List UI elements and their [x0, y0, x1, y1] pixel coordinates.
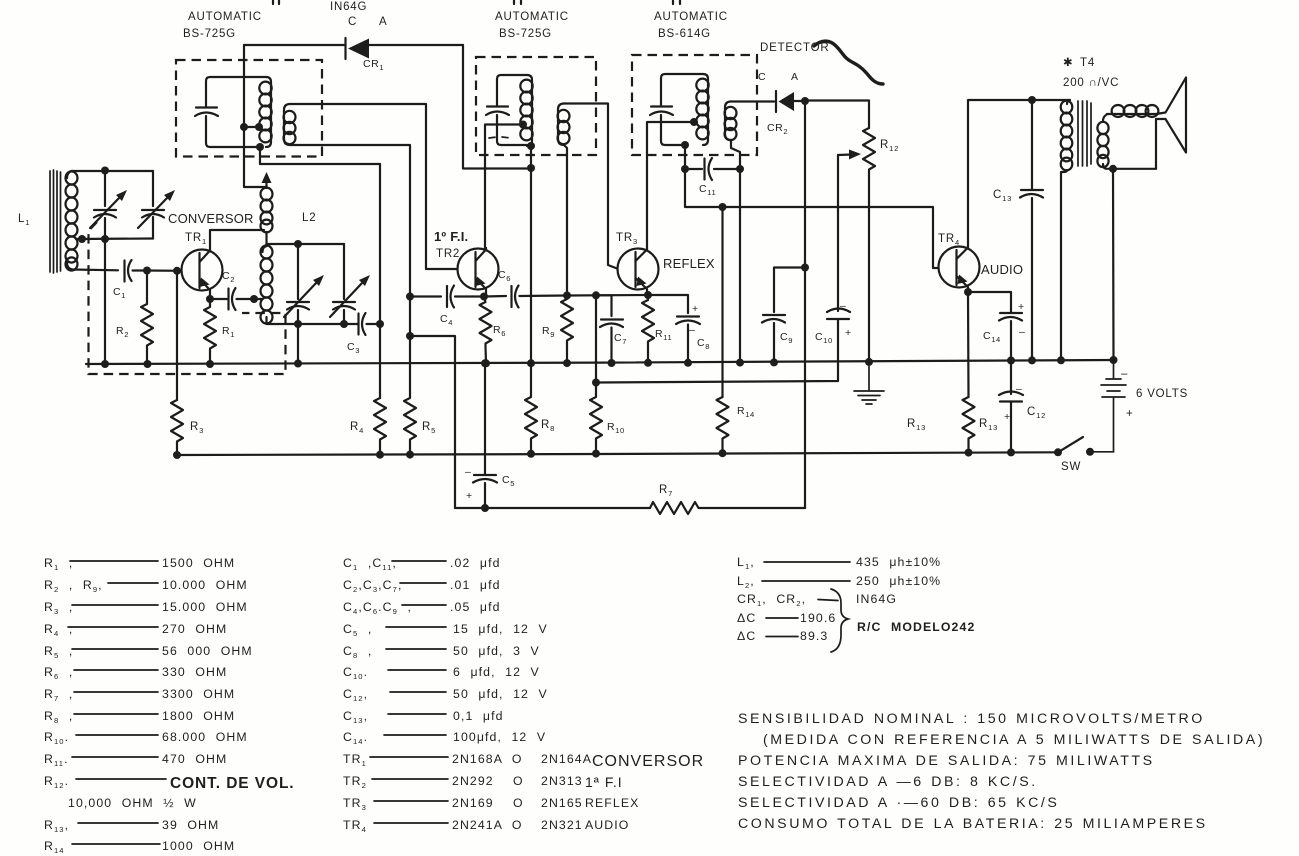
wire C1 to TR1 base [147, 269, 181, 271]
svg-text:15 μfd, 12 V: 15 μfd, 12 V [453, 622, 548, 636]
node bus L2 [294, 360, 302, 368]
transistor TR4 [939, 247, 980, 293]
antenna coil L1 [66, 171, 78, 271]
svg-text:(MEDIDA CON REFERENCIA A 5 MIL: (MEDIDA CON REFERENCIA A 5 MILIWATTS DE … [763, 732, 1265, 748]
node C5 bottom [481, 504, 489, 512]
T1 tank left wire [206, 77, 266, 147]
T1 primary tap wire [244, 126, 259, 128]
wire T3 primary bottom to AVC line [685, 145, 938, 268]
svg-text:SELECTIVIDAD A ·—60 DB: 65 KC/: SELECTIVIDAD A ·—60 DB: 65 KC/S [738, 795, 1059, 811]
T1 dashed can outline [176, 60, 322, 157]
node T1 tap [240, 123, 248, 131]
wire TR2 collector (to T2 tap drawn above) [484, 247, 487, 249]
variable capacitor (osc section in box) [138, 190, 175, 228]
svg-text:AUDIO: AUDIO [585, 818, 629, 832]
capacitor C9 [762, 315, 785, 363]
capacitor C4 [447, 286, 484, 308]
svg-text:BS-614G: BS-614G [658, 28, 711, 40]
svg-text:50 μfd, 12 V: 50 μfd, 12 V [453, 687, 548, 701]
wire TR1 collector up and to L2 [210, 230, 264, 249]
wire L1 bottom row [72, 268, 118, 271]
node TR1 emitter junction [206, 295, 214, 303]
svg-text:REFLEX: REFLEX [585, 796, 639, 810]
svg-text:R12: R12 [880, 139, 899, 153]
svg-text:C11: C11 [699, 183, 716, 197]
svg-text:TR4: TR4 [938, 233, 960, 247]
wire T1 center vertical (osc feedback) [244, 45, 266, 187]
svg-text:R8: R8 [541, 419, 555, 433]
svg-text:.01 μfd: .01 μfd [450, 578, 501, 592]
svg-text:1500 OHM: 1500 OHM [162, 556, 235, 570]
capacitor C2 [210, 288, 262, 310]
wire TR4 emitter down to R13 [967, 292, 970, 397]
node bus C14 [1007, 357, 1015, 365]
svg-text:.05 μfd: .05 μfd [450, 600, 501, 614]
svg-text:435 μh±10%: 435 μh±10% [856, 555, 941, 569]
svg-text:C2,C3,C7,: C2,C3,C7, [343, 578, 403, 594]
svg-text:R5: R5 [422, 421, 436, 435]
svg-text:R10.: R10. [44, 730, 69, 746]
resistor R4 riser [379, 164, 381, 398]
svg-text:R/C MODELO242: R/C MODELO242 [857, 620, 975, 634]
svg-text:C10.: C10. [343, 665, 368, 681]
svg-text:+: + [692, 303, 699, 315]
svg-text:R12.: R12. [44, 774, 69, 790]
variable capacitor (osc trimmer) [330, 244, 370, 324]
T2 primary coil [520, 75, 532, 146]
wire top feed from T1 to CR1 [244, 44, 344, 46]
svg-text:R1 ,: R1 , [44, 556, 73, 572]
svg-text:R7: R7 [659, 484, 673, 498]
svg-text:C9: C9 [780, 331, 793, 345]
detector squiggle arrow [814, 41, 883, 84]
capacitor C5 (electrolytic) [473, 364, 497, 509]
node rail R5 [406, 451, 414, 459]
svg-text:R4 ;: R4 ; [44, 622, 73, 638]
node TR4 emitter [964, 288, 972, 296]
node bus R2 [144, 360, 152, 368]
node bus T3 return [736, 359, 744, 367]
svg-text:+: + [1126, 408, 1134, 420]
wire tuning box bottom (coil tap) [76, 237, 153, 240]
antenna core bars [50, 170, 61, 273]
svg-text:C14: C14 [983, 330, 1001, 344]
svg-text:C13: C13 [993, 189, 1012, 203]
svg-text:R13: R13 [979, 418, 998, 432]
node R9 top [563, 292, 571, 300]
svg-text:REFLEX: REFLEX [663, 256, 715, 271]
svg-text:2N292: 2N292 [452, 774, 494, 788]
svg-text:C1 ,C11,: C1 ,C11, [343, 556, 397, 572]
wire L2 tank to bus [297, 324, 299, 364]
wire C7 riser to R10 [595, 295, 597, 382]
node bus R6 [482, 359, 490, 367]
svg-text:10.000 OHM: 10.000 OHM [162, 578, 248, 592]
svg-text:C7: C7 [614, 332, 627, 346]
node rail R13 [965, 449, 973, 457]
brace [831, 589, 848, 652]
svg-text:TR1: TR1 [185, 232, 207, 246]
node TR2 emitter [480, 293, 488, 301]
svg-text:–: – [1019, 326, 1025, 338]
wire C4 row [410, 295, 441, 297]
svg-text:+: + [466, 490, 473, 502]
svg-text:39 OHM: 39 OHM [162, 818, 219, 832]
node C3 right on R4 riser [376, 320, 384, 328]
svg-text:R6 ,: R6 , [44, 665, 73, 681]
node C4 left on R5 riser [406, 293, 414, 301]
resistor R3 riser [176, 271, 178, 400]
svg-text:R8 ,: R8 , [44, 709, 73, 725]
svg-text:R3: R3 [190, 421, 204, 435]
svg-text:C5 ,: C5 , [343, 622, 372, 638]
resistor R14 [717, 397, 729, 454]
svg-text:POTENCIA MAXIMA DE SALIDA: 75: POTENCIA MAXIMA DE SALIDA: 75 MILIWATTS [738, 753, 1155, 769]
svg-text:2N241A O: 2N241A O [452, 818, 523, 832]
resistor R9 [561, 296, 573, 364]
wire tuning box top [72, 170, 153, 172]
svg-text:C4: C4 [440, 313, 453, 327]
resistor R5 [404, 297, 416, 455]
svg-text:CR1, CR2,: CR1, CR2, [737, 592, 806, 608]
svg-text:C13,: C13, [343, 709, 368, 725]
capacitor C13 [1020, 100, 1043, 360]
svg-text:C8 ,: C8 , [343, 644, 372, 660]
node R14 riser top [719, 203, 727, 211]
oscillator coil L2 lower [261, 245, 273, 323]
svg-text:R2 , R9,: R2 , R9, [44, 578, 103, 594]
node TR3 emitter [644, 291, 652, 299]
node bus R11 [644, 359, 652, 367]
transformer T2 cut label [514, 0, 521, 4]
node bus R8 top [527, 359, 535, 367]
svg-text:270 OHM: 270 OHM [162, 622, 227, 636]
wire CR2 to R12 [805, 101, 869, 129]
coil list leader lines [762, 562, 850, 637]
wire R7 row [485, 507, 650, 509]
svg-text:C10: C10 [815, 331, 833, 345]
node C7 branch [592, 291, 600, 299]
T2 primary tap wire to TR2 collector [485, 125, 523, 250]
svg-text:A: A [791, 71, 799, 83]
svg-text:200 ∩/VC: 200 ∩/VC [1063, 77, 1119, 89]
wire L2 tank bottom [267, 317, 359, 324]
resistor R12 (volume control) [863, 128, 875, 361]
svg-text:R13: R13 [907, 418, 926, 432]
svg-text:R9: R9 [542, 325, 555, 339]
transistor TR1 [182, 249, 223, 299]
ground symbol [854, 362, 884, 404]
svg-text:C12,: C12, [343, 687, 368, 703]
svg-text:R2: R2 [116, 325, 129, 339]
capacitor inside T3 [650, 107, 673, 116]
svg-text:C3: C3 [347, 341, 360, 355]
wire T2 secondary bottom down [564, 145, 567, 296]
svg-text:50 μfd, 3 V: 50 μfd, 3 V [453, 644, 540, 658]
node L2 tank top [294, 240, 302, 248]
capacitor C8 (electrolytic) [648, 295, 700, 363]
node bus C8 [684, 359, 692, 367]
svg-text:IN64G: IN64G [330, 1, 367, 13]
svg-text:CONVERSOR: CONVERSOR [168, 211, 254, 226]
svg-text:+: + [1018, 301, 1025, 313]
resistor R10 [590, 383, 602, 455]
svg-text:CR1: CR1 [363, 58, 384, 72]
wire emitter row to TR3 [567, 294, 648, 297]
resistor R11 [642, 295, 654, 363]
wire varcap1 down to bus [104, 239, 106, 364]
node rail R4 [376, 451, 384, 459]
svg-text:L1,: L1, [737, 555, 755, 571]
svg-text:+: + [845, 327, 852, 339]
svg-text:TR3: TR3 [616, 232, 638, 246]
node TR1 base / R3 [173, 267, 181, 275]
wire T2 primary bottom down to bus [530, 147, 532, 363]
svg-text:AUTOMATIC: AUTOMATIC [495, 11, 569, 23]
wire tuning box right [152, 171, 154, 206]
svg-text:10,000 OHM ½ W: 10,000 OHM ½ W [68, 796, 197, 810]
svg-text:190.6: 190.6 [800, 611, 836, 625]
svg-text:–: – [1016, 383, 1022, 395]
svg-text:AUTOMATIC: AUTOMATIC [188, 11, 262, 23]
svg-text:TR3: TR3 [343, 796, 367, 812]
svg-text:BS-725G: BS-725G [499, 28, 552, 40]
svg-text:CONVERSOR: CONVERSOR [592, 753, 704, 770]
svg-text:AUTOMATIC: AUTOMATIC [654, 11, 728, 23]
converter dashed outline [89, 222, 286, 374]
svg-text:1000 OHM: 1000 OHM [162, 839, 235, 853]
node L2 tank bottom left [294, 320, 302, 328]
capacitor C3 [359, 313, 381, 335]
resistor R8 [525, 363, 537, 454]
node T3 primary bottom [681, 141, 689, 149]
svg-text:AUDIO: AUDIO [981, 262, 1023, 277]
svg-text:470 OHM: 470 OHM [162, 752, 227, 766]
node bus battery [1110, 356, 1118, 364]
svg-text:CR2: CR2 [767, 122, 788, 136]
svg-text:C12: C12 [1027, 406, 1046, 420]
node tap L1 [78, 235, 86, 243]
svg-text:250 μh±10%: 250 μh±10% [856, 574, 941, 588]
capacitor C7 [596, 295, 623, 363]
wire T3 secondary bottom down to bus [731, 140, 740, 363]
node AVC tap [406, 332, 414, 340]
node C13 top [1028, 96, 1036, 104]
svg-text:TR2: TR2 [436, 248, 460, 260]
svg-text:T4: T4 [1080, 57, 1095, 69]
speaker horn [1156, 78, 1186, 169]
svg-text:2N165: 2N165 [541, 796, 583, 810]
node speaker return [1109, 165, 1117, 173]
svg-text:C: C [758, 71, 766, 83]
transformer T4 core [1078, 101, 1091, 166]
svg-text:O: O [513, 796, 524, 810]
svg-text:R14: R14 [737, 405, 755, 419]
svg-text:0,1 μfd: 0,1 μfd [453, 709, 504, 723]
wire R12 wiper to C10 [837, 155, 839, 311]
svg-text:CONSUMO TOTAL DE LA BATERIA: 2: CONSUMO TOTAL DE LA BATERIA: 25 MILIAMPE… [738, 816, 1208, 832]
svg-text:SENSIBILIDAD NOMINAL : 150 MIC: SENSIBILIDAD NOMINAL : 150 MICROVOLTS/ME… [738, 711, 1205, 727]
svg-text:SW: SW [1061, 461, 1081, 473]
node bus C5 [481, 359, 489, 367]
wire main supply bus [86, 360, 1114, 364]
wire CR1 to T2 bottom junction [463, 45, 531, 169]
wire TR4 emitter to C14 [968, 292, 1011, 312]
node rail R3 [173, 451, 181, 459]
wire T1 primary bottom to R4 riser [260, 147, 380, 164]
wire AVC feedback to R7 [410, 336, 485, 508]
svg-text:2N321: 2N321 [541, 818, 583, 832]
node rail R14 [719, 449, 727, 457]
node R2 top [143, 267, 151, 275]
svg-text:IN64G: IN64G [856, 592, 897, 606]
T2 dashed can outline [476, 57, 596, 155]
svg-text:ΔC: ΔC [737, 611, 756, 625]
wire detector output down [804, 101, 806, 508]
svg-text:C5: C5 [502, 474, 515, 488]
node C2 right (L2 tap) [250, 295, 258, 303]
svg-text:TR2: TR2 [343, 774, 367, 790]
svg-text:C2: C2 [222, 270, 235, 284]
R12 wiper arrow [838, 153, 852, 156]
svg-text:L2: L2 [302, 212, 316, 224]
resistor R1 [204, 299, 216, 364]
wire C9 branch [774, 268, 805, 313]
svg-text:6 μfd, 12 V: 6 μfd, 12 V [453, 665, 540, 679]
svg-text:1º F.I.: 1º F.I. [434, 229, 468, 244]
wire R14 riser [721, 207, 723, 397]
svg-text:R11.: R11. [44, 752, 69, 768]
transformer T1 cut label [273, 0, 279, 4]
diode CR1 [346, 38, 464, 59]
svg-text:C1: C1 [113, 286, 126, 300]
resistor R13 [963, 397, 975, 454]
T3 dashed can outline [632, 55, 757, 155]
svg-text:R13,: R13, [44, 818, 69, 834]
T3 primary coil [696, 74, 708, 145]
speaker voice coil [1107, 105, 1158, 117]
wire T2 secondary top to TR3 base [564, 104, 617, 269]
svg-text:R4: R4 [350, 421, 364, 435]
node T2 primary bottom [527, 142, 535, 150]
svg-text:C6: C6 [498, 269, 511, 283]
wire T1 secondary top to TR2 base [290, 104, 457, 269]
resistor R6 [480, 297, 492, 364]
svg-text:–: – [840, 300, 846, 312]
svg-text:TR4: TR4 [343, 818, 367, 834]
svg-text:1ª F.I: 1ª F.I [585, 774, 623, 790]
capacitor inside T2 [486, 107, 509, 116]
node varcap1 top [101, 167, 109, 175]
node varcap1 bottom [101, 235, 109, 243]
svg-text:89.3: 89.3 [800, 629, 828, 643]
T1 primary coil [259, 77, 271, 147]
variable capacitor (antenna section) [90, 171, 127, 239]
resistor list leader lines [68, 561, 166, 844]
capacitor C10 (electrolytic) [596, 309, 850, 383]
capacitor list leader lines [370, 561, 448, 823]
svg-text:2N168A O: 2N168A O [452, 752, 523, 766]
resistor R4 [374, 398, 386, 455]
oscillator coil L2 upper with arrow [261, 172, 273, 246]
capacitor C6 [484, 286, 567, 308]
node bus C13 [1028, 356, 1036, 364]
svg-text:R14: R14 [44, 839, 65, 855]
svg-text:R11: R11 [655, 328, 672, 342]
transistor TR2 [458, 248, 499, 297]
svg-text:330 OHM: 330 OHM [162, 665, 227, 679]
svg-text:A: A [379, 16, 387, 28]
wire TR4 collector up [968, 100, 1070, 247]
T1 secondary coil [284, 104, 296, 145]
node CR2 output [801, 97, 809, 105]
wire ground bus (negative rail) [177, 452, 1058, 455]
svg-text:ΔC: ΔC [737, 629, 756, 643]
svg-text:2N164A: 2N164A [541, 752, 592, 766]
svg-text:R3 ,: R3 , [44, 600, 73, 616]
T2 tank left wire [497, 75, 527, 145]
svg-text:+: + [1004, 411, 1011, 423]
node T2 bottom junction [527, 164, 535, 172]
svg-text:–: – [689, 324, 695, 336]
svg-text:✱: ✱ [1063, 57, 1073, 69]
switch SW [1054, 448, 1062, 456]
node C9 branch [801, 264, 809, 272]
variable capacitor (osc tuning) [284, 244, 324, 324]
node R10 top [592, 379, 600, 387]
svg-text:C4,C6.C9 ,: C4,C6.C9 , [343, 600, 412, 616]
node T3 tap [690, 118, 698, 126]
svg-text:R5 ,: R5 , [44, 644, 73, 660]
capacitor C14 (electrolytic) [999, 313, 1022, 361]
wire T3 secondary top to CR2 [731, 100, 774, 102]
svg-text:L2,: L2, [737, 574, 755, 590]
node bus varcap1 [101, 360, 109, 368]
wire L2 tank top [267, 244, 345, 246]
svg-text:100μfd, 12 V: 100μfd, 12 V [453, 730, 546, 744]
transistor TR3 [618, 248, 659, 295]
svg-text:TR1: TR1 [343, 752, 367, 768]
node T1 primary bottom [256, 143, 264, 151]
svg-text:2N313: 2N313 [541, 774, 583, 788]
svg-text:CONT. DE VOL.: CONT. DE VOL. [170, 775, 295, 792]
svg-text:3300 OHM: 3300 OHM [162, 687, 235, 701]
svg-text:C14.: C14. [343, 730, 368, 746]
svg-text:–: – [465, 466, 471, 478]
svg-text:1800 OHM: 1800 OHM [162, 709, 235, 723]
node bus R12/ground [865, 358, 873, 366]
svg-text:SELECTIVIDAD A —6 DB: 8 KC/S.: SELECTIVIDAD A —6 DB: 8 KC/S. [738, 774, 1038, 790]
svg-text:68.000 OHM: 68.000 OHM [162, 730, 248, 744]
T3 tank left wire [661, 74, 703, 145]
node bus C7 [608, 359, 616, 367]
svg-text:R1: R1 [222, 325, 235, 339]
T3 primary tap wire to TR3 collector [647, 122, 694, 249]
svg-text:6 VOLTS: 6 VOLTS [1136, 388, 1188, 400]
svg-text:O: O [513, 774, 524, 788]
capacitor C1 [125, 260, 148, 282]
wire T1 secondary bottom to R5 riser [290, 145, 410, 297]
node bus C9 [770, 358, 778, 366]
resistor R7 [650, 502, 805, 514]
transformer T3 cut label [673, 0, 680, 4]
transformer T4 secondary coil [1097, 114, 1156, 169]
svg-text:R6: R6 [493, 324, 506, 338]
svg-text:2N169: 2N169 [452, 796, 494, 810]
node varcap trimmer bottom [340, 320, 348, 328]
node rail R10 [592, 450, 600, 458]
node bus R1 [206, 360, 214, 368]
